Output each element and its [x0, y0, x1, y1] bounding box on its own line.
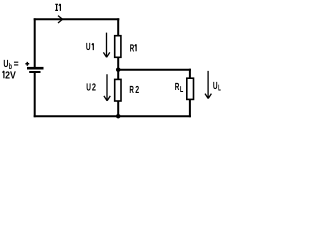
arrow U2 voltage — [104, 74, 110, 101]
resistor RL — [187, 78, 194, 99]
svg-text:2: 2 — [135, 85, 139, 96]
wire between R1 and R2 — [117, 58, 119, 79]
battery Ub short negative plate — [29, 71, 40, 73]
svg-text:L: L — [218, 83, 221, 93]
svg-text:U: U — [86, 42, 91, 53]
wire right branch vertical upper (to RL) — [189, 69, 191, 79]
svg-text:R: R — [130, 43, 135, 54]
arrowhead I1 current arrow — [58, 16, 63, 23]
arrow UL voltage — [205, 71, 211, 99]
resistor R2 — [115, 79, 121, 101]
wire middle branch: top wire down to R1 — [117, 18, 119, 35]
svg-text:L: L — [180, 84, 183, 94]
svg-text:=: = — [14, 59, 19, 70]
node junction dot top — [116, 67, 121, 72]
svg-text:R: R — [129, 85, 134, 96]
battery Ub long positive plate — [27, 67, 44, 70]
wire below R2 to bottom wire — [117, 101, 119, 117]
label I1 — [55, 4, 60, 11]
svg-text:2V: 2V — [5, 70, 16, 81]
wire branch horizontal to RL — [118, 69, 191, 71]
svg-text:2: 2 — [92, 83, 96, 94]
resistor R1 — [115, 36, 121, 58]
svg-text:U: U — [86, 83, 91, 94]
wire bottom horizontal — [34, 115, 191, 117]
label 12V — [3, 71, 4, 78]
wire top horizontal — [34, 18, 120, 20]
wire left vertical upper (battery + terminal to top wire) — [34, 18, 36, 67]
svg-text:U: U — [213, 81, 218, 92]
arrow U1 voltage — [103, 33, 109, 58]
svg-text:U: U — [3, 59, 8, 70]
wire left vertical lower (battery - terminal to bottom wire) — [34, 73, 36, 117]
wire right branch vertical lower (RL to bottom wire) — [189, 100, 191, 118]
battery Ub plus sign — [25, 62, 29, 66]
node junction dot bottom — [116, 114, 121, 119]
